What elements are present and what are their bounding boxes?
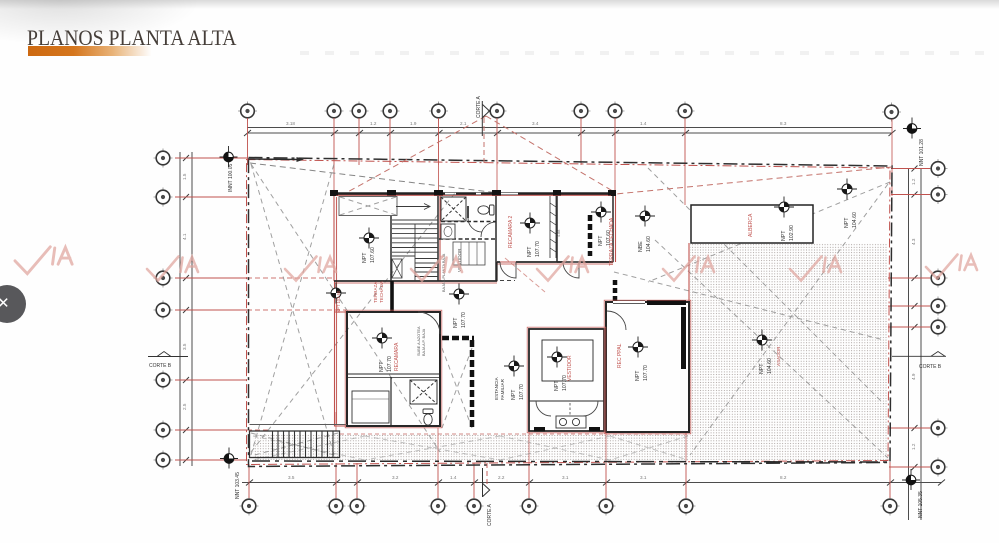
dimension tick marks bottom [246, 480, 945, 486]
door arcs vestidor bath [536, 401, 598, 416]
level marker mirador [752, 330, 772, 351]
vestidor room center-right [529, 329, 604, 431]
red stems top extensions into plan [334, 165, 685, 205]
svg-text:NNT 105.35: NNT 105.35 [918, 491, 924, 518]
level marker alberca [774, 197, 794, 218]
svg-text:BAJA A P. BAJA: BAJA A P. BAJA [422, 328, 426, 356]
heavy L wall center [442, 336, 474, 341]
dimension tick marks right [912, 166, 918, 471]
svg-text:TERRAZA: TERRAZA [373, 281, 378, 303]
svg-text:107.70: 107.70 [461, 312, 467, 328]
svg-text:NPT: NPT [362, 252, 368, 263]
svg-text:3.18: 3.18 [286, 121, 295, 126]
pool ALBERCA [691, 205, 813, 243]
svg-text:NPT: NPT [453, 317, 459, 328]
svg-text:ASADOR: ASADOR [776, 346, 781, 366]
svg-text:3.4: 3.4 [532, 121, 539, 126]
svg-text:NPT: NPT [598, 235, 604, 246]
svg-text:107.70: 107.70 [519, 384, 525, 400]
red CORTE A stub bottom [486, 463, 488, 486]
heavy walls rec ppal [647, 300, 686, 305]
svg-text:REC PPAL: REC PPAL [617, 343, 623, 368]
level marker terraza left [359, 228, 379, 249]
heavy dashed wall stub above rec ppal [613, 280, 618, 302]
svg-text:NPT: NPT [379, 361, 385, 372]
top-left gray blob [0, 0, 200, 45]
svg-text:CORTE A: CORTE A [487, 503, 493, 526]
red vertical connector at top right [891, 119, 893, 196]
svg-text:NPT: NPT [759, 363, 765, 374]
svg-text:4.1: 4.1 [182, 233, 187, 240]
toilet lower-left bath [423, 409, 433, 425]
svg-text:NPT 103.60: NPT 103.60 [336, 290, 341, 313]
svg-text:ALBERCA: ALBERCA [748, 213, 754, 237]
svg-text:3.1: 3.1 [562, 475, 569, 480]
toilet upper bath [478, 205, 494, 215]
level marker terraza right [591, 202, 611, 223]
lower-left room outline [347, 312, 440, 426]
svg-text:3.2: 3.2 [392, 475, 399, 480]
svg-text:NPT: NPT [844, 217, 850, 228]
svg-text:107.70: 107.70 [643, 365, 649, 381]
right dimension lines [908, 168, 910, 520]
red dashed top edge of bottom hatch strip [340, 433, 688, 435]
svg-text:1.2: 1.2 [370, 121, 377, 126]
svg-text:1.2: 1.2 [911, 443, 916, 450]
level marker hall [449, 284, 469, 305]
svg-text:RECAMARA: RECAMARA [394, 342, 400, 371]
dimension tick marks left [183, 155, 189, 463]
estancia X [442, 348, 472, 428]
level marker estancia [504, 356, 524, 377]
bottom grid bubble row [240, 497, 900, 516]
svg-text:1.5: 1.5 [182, 173, 187, 180]
level marker recamara2 [520, 213, 540, 234]
bath divider walls [439, 222, 496, 240]
red stems top row [248, 118, 686, 165]
svg-text:3.1: 3.1 [640, 475, 647, 480]
bottom strip zigzag [253, 436, 688, 460]
wall piers upper block [330, 190, 616, 196]
closet heavy dashes right section [588, 215, 593, 256]
top dimension lines [247, 127, 892, 129]
heavy ticks bottom of vestidor [534, 427, 545, 432]
right zone X [648, 168, 884, 404]
title [27, 25, 236, 51]
red stems left extensions [247, 278, 347, 430]
svg-text:2.5: 2.5 [182, 403, 187, 410]
hatched terrace right [690, 243, 888, 461]
svg-text:1.2: 1.2 [911, 178, 916, 185]
benchmark bottom right [902, 469, 920, 490]
svg-text:4.3: 4.3 [911, 238, 916, 245]
door arc lower-left room [418, 312, 440, 334]
staircase bottom [250, 431, 340, 458]
door arcs upper block [500, 262, 579, 281]
red facing lines on rooms [336, 196, 691, 434]
red stems right column [888, 169, 930, 468]
svg-text:SUBE A AZOTEA: SUBE A AZOTEA [417, 326, 421, 356]
svg-text:NPT: NPT [635, 370, 641, 381]
right grid bubble column [929, 159, 948, 477]
bath interior door [468, 206, 496, 237]
staircase upper [392, 204, 438, 282]
hatched strip bottom [253, 434, 688, 461]
tiny dimension figures [182, 121, 916, 480]
svg-text:107.70: 107.70 [387, 356, 393, 372]
lot boundary red dash-dot [247, 160, 891, 465]
level marker vestidor [547, 347, 567, 368]
red room labels [336, 213, 781, 381]
svg-text:FAMILIAR: FAMILIAR [500, 378, 505, 400]
svg-text:2.1: 2.1 [460, 121, 467, 126]
svg-text:NNT 103.45: NNT 103.45 [235, 472, 241, 499]
svg-text:NPT: NPT [554, 380, 560, 391]
top grid bubble row [238, 102, 901, 122]
red dashed section mark in hall [505, 258, 545, 292]
svg-text:104.60: 104.60 [767, 358, 773, 374]
svg-text:107.60: 107.60 [370, 247, 376, 263]
svg-text:TERRAZA TECHADA: TERRAZA TECHADA [609, 217, 615, 266]
left zone X [251, 164, 334, 455]
rec ppal room right [606, 301, 689, 433]
svg-text:104.60: 104.60 [646, 236, 652, 252]
svg-text:107.70: 107.70 [535, 241, 541, 257]
upper block red perimeter [334, 194, 689, 426]
dimension tick marks top [183, 130, 945, 486]
svg-text:ESTANCIA: ESTANCIA [494, 376, 499, 400]
svg-text:NBE: NBE [638, 241, 644, 252]
red wall at hatch edge left of pool [688, 243, 690, 302]
benchmark leader arrow top left [248, 158, 300, 161]
upper block interior walls [334, 195, 613, 281]
window double lines top wall [445, 192, 518, 194]
terrace edge line left of room [250, 424, 348, 426]
level marker rec ppal [628, 337, 648, 358]
left grid bubble column [154, 149, 173, 470]
bath fixtures vestidor [556, 416, 586, 428]
level marker patio left [326, 283, 346, 304]
svg-text:CORTE B: CORTE B [919, 364, 942, 370]
level marker NBE [635, 206, 655, 227]
benchmark bottom left [220, 448, 238, 469]
bottom wall of upper block with door gaps [334, 280, 497, 282]
svg-text:104.60: 104.60 [852, 212, 858, 228]
vestidor wardrobe [453, 242, 485, 265]
svg-text:8.2: 8.2 [780, 475, 787, 480]
left dimension lines [179, 152, 181, 466]
terraza box outline [339, 197, 397, 216]
svg-text:102.90: 102.90 [789, 225, 795, 241]
svg-text:3.5: 3.5 [288, 475, 295, 480]
level marker top right terrace [837, 179, 857, 200]
close button [0, 285, 26, 323]
red stems left column [175, 158, 247, 460]
svg-text:4.9: 4.9 [911, 373, 916, 380]
heavy wall stub left patio [390, 281, 394, 312]
red roof projection lines [250, 116, 892, 194]
lot boundary black dash-dot [249, 158, 893, 467]
sink upper bath [441, 224, 455, 239]
VIA watermark row [15, 247, 977, 281]
svg-text:CORTE A: CORTE A [476, 95, 482, 118]
svg-text:1.4: 1.4 [640, 121, 647, 126]
stairs X bottom [251, 433, 338, 456]
benchmark top left [220, 146, 238, 167]
svg-text:INNT 100.05: INNT 100.05 [228, 164, 234, 192]
svg-text:CORTE B: CORTE B [149, 363, 172, 369]
svg-text:1.4: 1.4 [450, 475, 457, 480]
red stems bottom row [249, 462, 890, 498]
closet double line recamara2 [550, 196, 556, 258]
svg-text:NPT: NPT [527, 246, 533, 257]
svg-text:TECHADA: TECHADA [379, 280, 384, 303]
svg-text:2.2: 2.2 [498, 475, 505, 480]
svg-text:1.9: 1.9 [410, 121, 417, 126]
svg-text:NPT: NPT [511, 389, 517, 400]
orange gradient bar [28, 46, 158, 56]
svg-text:RECAMARA 2: RECAMARA 2 [508, 216, 514, 248]
top gray band [0, 0, 999, 9]
svg-text:3.5: 3.5 [182, 343, 187, 350]
door arc rec ppal [607, 311, 626, 330]
level marker recamara3 [372, 328, 392, 349]
bottom dimension line [242, 482, 941, 484]
CORTE A top label [148, 95, 946, 526]
shower upper bath [441, 197, 466, 221]
wardrobe lower-left room [352, 391, 389, 423]
benchmark top right [903, 118, 921, 139]
heavy black overlay on bottom lot line [252, 461, 888, 462]
svg-text:VESTIDOR: VESTIDOR [567, 355, 573, 381]
svg-text:NPT: NPT [781, 230, 787, 241]
upper block top wall (black with window gaps) [334, 192, 613, 194]
faint dotted band across top [300, 51, 999, 55]
red stems bottom extensions into plan [336, 412, 686, 463]
lower-left block red wall [335, 312, 348, 426]
terraza X top [340, 197, 396, 215]
svg-text:NNT 101.28: NNT 101.28 [919, 139, 925, 166]
shower lower-left bath [410, 380, 437, 404]
svg-text:8.3: 8.3 [780, 121, 787, 126]
